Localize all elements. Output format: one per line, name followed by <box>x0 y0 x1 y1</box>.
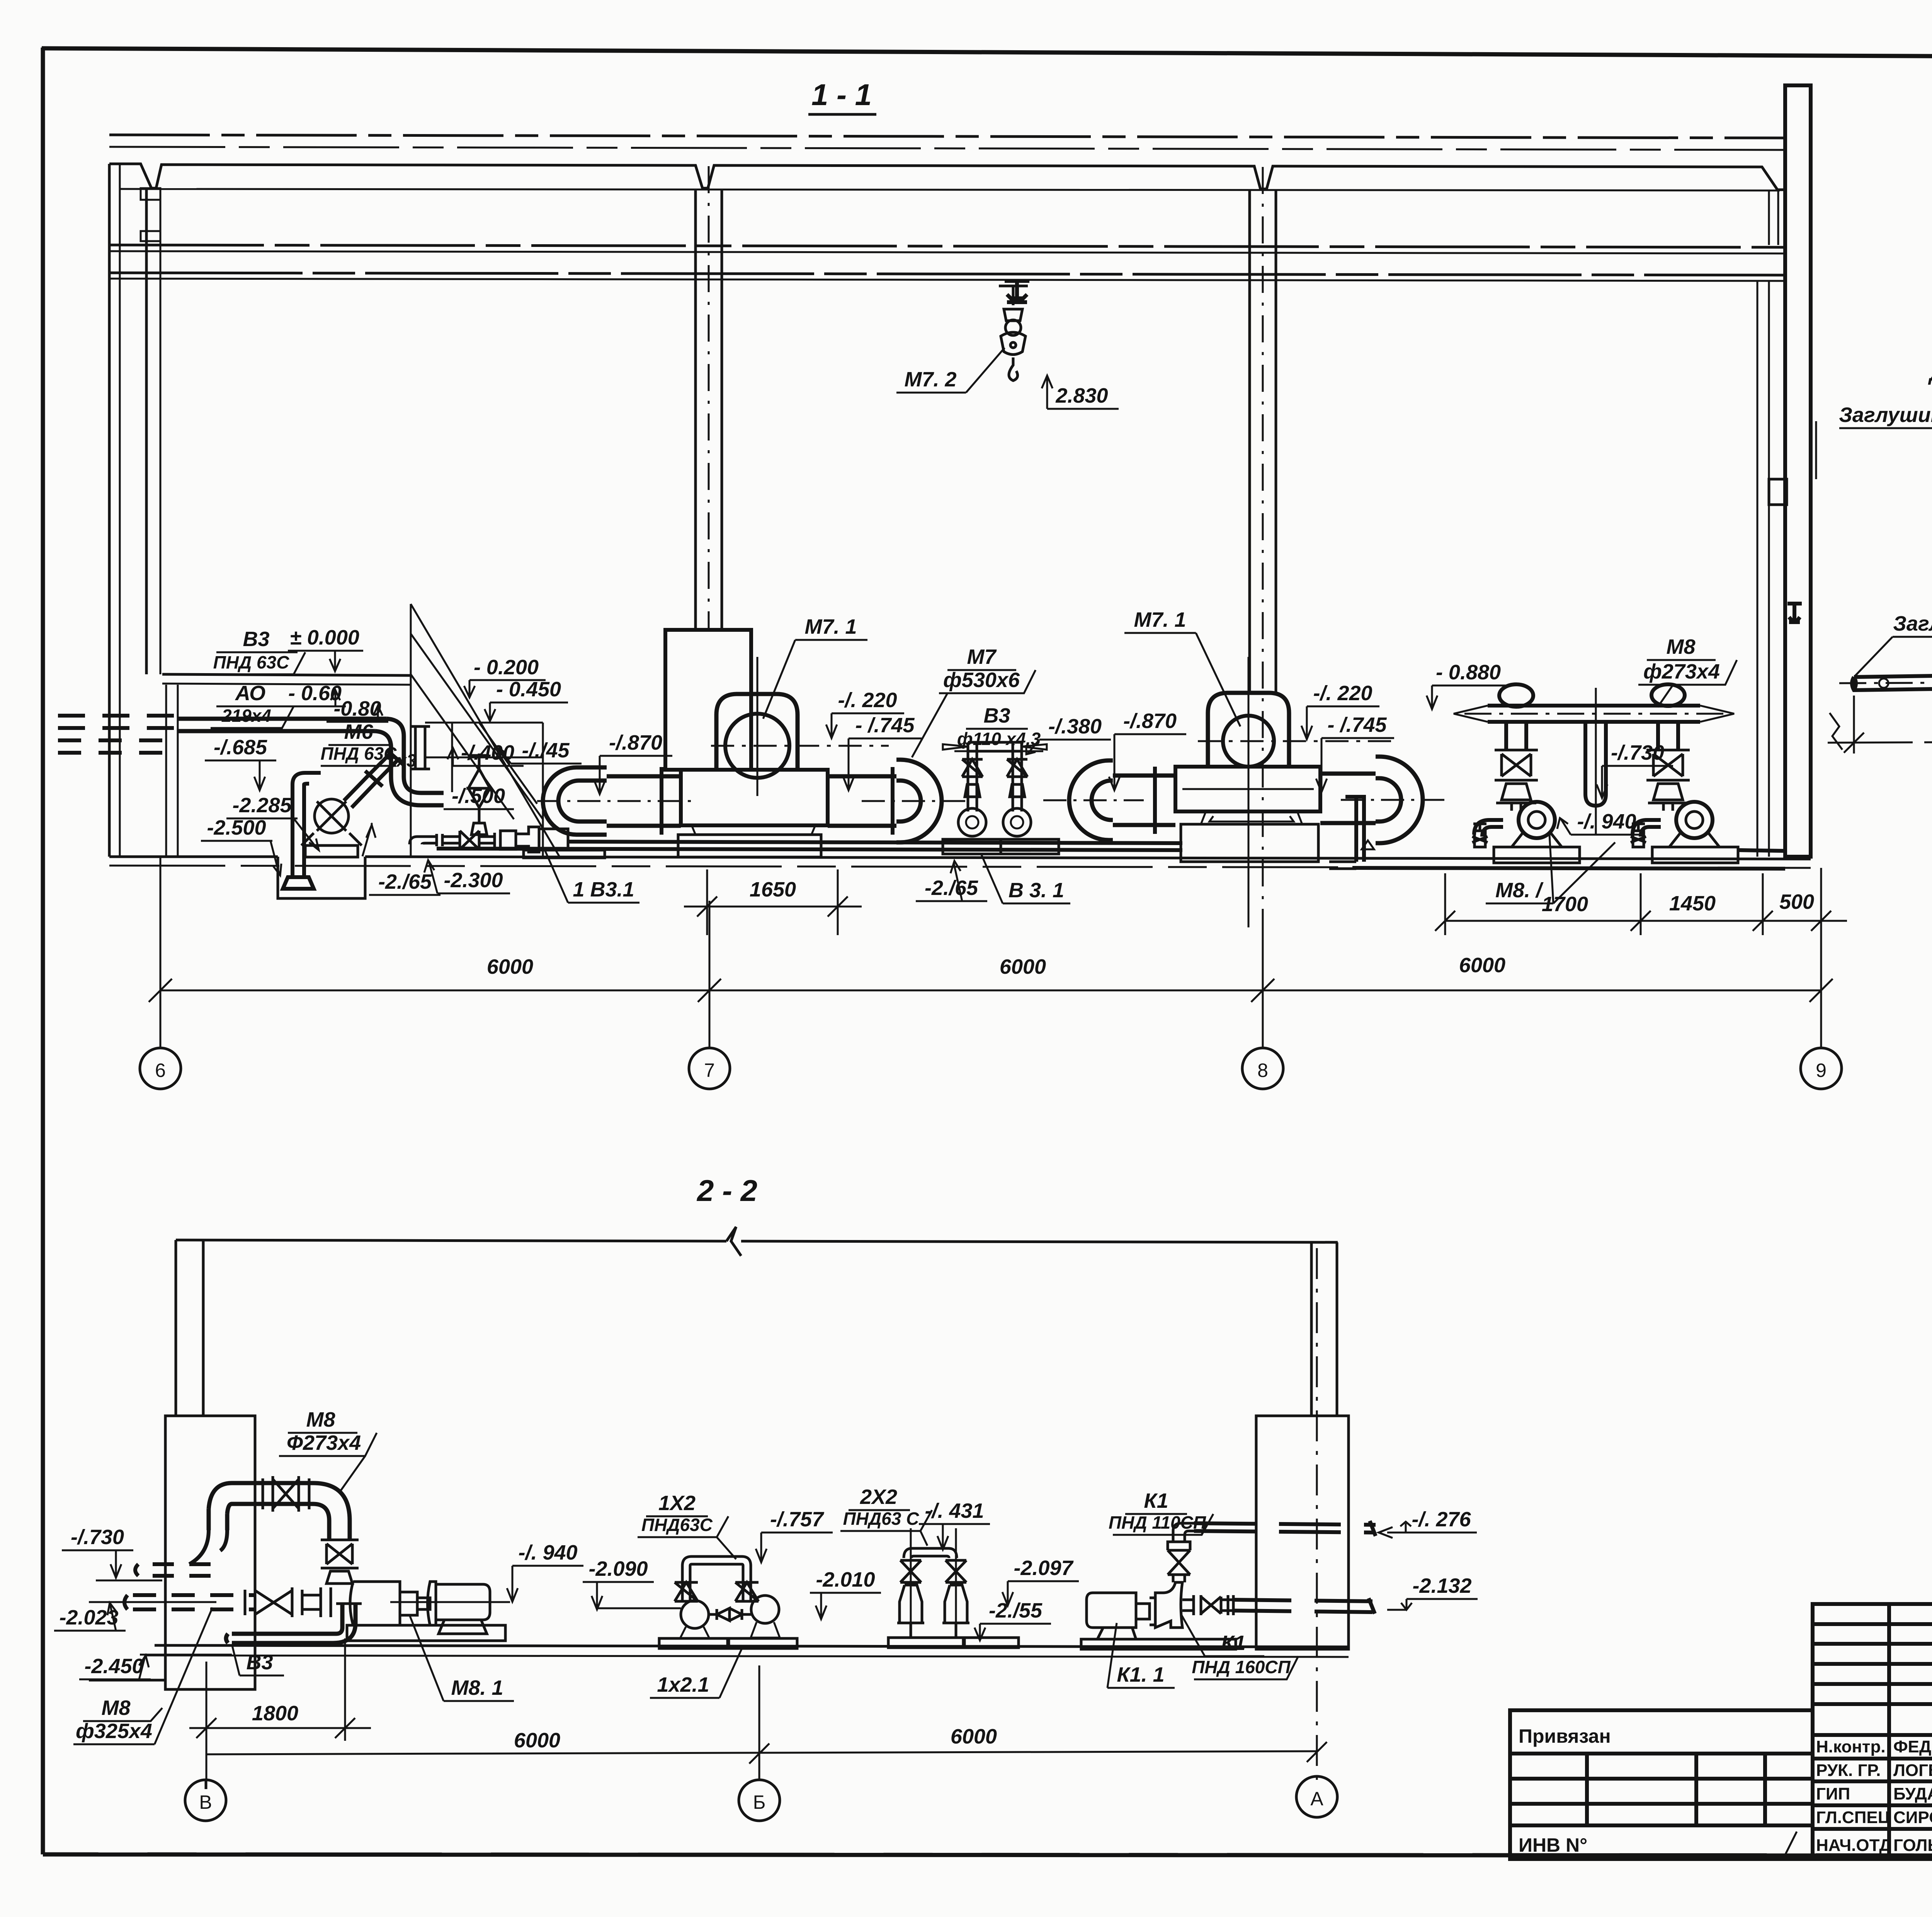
svg-text:-2.300: -2.300 <box>444 869 503 892</box>
svg-text:-/.500: -/.500 <box>452 784 505 808</box>
trapezoid support + base <box>692 825 815 835</box>
pump M6 with cross legs <box>301 799 362 857</box>
svg-text:ПНД 160СП: ПНД 160СП <box>1192 1657 1291 1677</box>
svg-text:В: В <box>199 1791 212 1813</box>
small elbow pipe at body right <box>1345 797 1364 862</box>
svg-text:-2./55: -2./55 <box>989 1599 1043 1622</box>
arrows to pipe ends <box>943 744 1047 750</box>
svg-text:К1. 1: К1. 1 <box>1117 1663 1164 1686</box>
right loop (open left) <box>1376 757 1423 843</box>
floor pipes right zone <box>1738 850 1785 851</box>
svg-text:-2.097: -2.097 <box>1014 1556 1074 1580</box>
left wall <box>109 164 160 857</box>
svg-text:- /.745: - /.745 <box>1327 713 1387 737</box>
svg-text:-/./45: -/./45 <box>522 739 570 762</box>
main floor line <box>109 856 278 858</box>
body box <box>1175 767 1320 811</box>
horizontal pipe with cone arrows <box>1488 704 1700 708</box>
duct to right loop <box>828 774 896 779</box>
floor level pipe from pump to right <box>410 827 568 852</box>
svg-text:6: 6 <box>155 1060 166 1081</box>
duct to right loop <box>1320 772 1376 776</box>
svg-text:РУК. ГР.: РУК. ГР. <box>1816 1761 1881 1780</box>
break mark N <box>1830 713 1842 750</box>
svg-text:-/.730: -/.730 <box>1611 741 1664 764</box>
svg-text:- /.745: - /.745 <box>855 714 915 737</box>
svg-text:-/.870: -/.870 <box>1123 709 1177 733</box>
svg-text:А: А <box>1310 1788 1323 1810</box>
svg-text:± 0.000: ± 0.000 <box>290 626 359 649</box>
left piece <box>1852 675 1932 690</box>
pump M8.1 (sect 2-2) <box>336 1582 505 1641</box>
grid circle 7 <box>689 1048 730 1089</box>
svg-text:- 0.200: - 0.200 <box>474 656 539 679</box>
grid circle B <box>739 1780 780 1821</box>
svg-text:2Х2: 2Х2 <box>860 1485 897 1509</box>
right pump volute <box>1676 802 1713 838</box>
svg-text:М8. /: М8. / <box>1495 879 1544 902</box>
svg-text:М7: М7 <box>967 645 997 668</box>
thick pipes along floor to right <box>437 849 1182 850</box>
lower beam line pair <box>109 273 1787 275</box>
right elbow and riser <box>1658 722 1678 750</box>
ramp / inclined chute <box>411 604 560 857</box>
svg-text:-/. 220: -/. 220 <box>838 689 897 712</box>
svg-text:-/. 940: -/. 940 <box>1577 810 1636 833</box>
svg-text:БУДАЕВА: БУДАЕВА <box>1893 1784 1932 1803</box>
svg-text:-2.500: -2.500 <box>207 816 266 839</box>
svg-text:1Х2: 1Х2 <box>658 1492 696 1515</box>
svg-text:-2.010: -2.010 <box>816 1568 875 1591</box>
svg-text:ПНД 110СП: ПНД 110СП <box>1109 1512 1206 1533</box>
valve on right riser <box>1646 750 1690 811</box>
svg-text:1х2.1: 1х2.1 <box>657 1673 709 1696</box>
svg-text:6000: 6000 <box>487 955 533 978</box>
svg-text:-/. 276: -/. 276 <box>1412 1508 1471 1531</box>
dashed pipes through wall <box>124 1530 255 1609</box>
svg-text:-2./65: -2./65 <box>378 870 432 893</box>
zigzag pipe M6 to valve <box>344 750 404 808</box>
valve on top run <box>263 1476 309 1512</box>
svg-text:ФЕДОРОВА: ФЕДОРОВА <box>1893 1737 1932 1756</box>
svg-text:Заглушить: Заглушить <box>1839 403 1932 427</box>
crane rail I-beam on bracket <box>1787 604 1802 622</box>
svg-text:М7. 1: М7. 1 <box>804 615 857 638</box>
svg-text:ПНД63 С: ПНД63 С <box>843 1509 919 1529</box>
left loop (open right) <box>1069 760 1113 840</box>
svg-text:х3: х3 <box>395 750 417 771</box>
incoming dashed pipes through wall <box>58 716 178 753</box>
svg-text:Привязан: Привязан <box>1519 1725 1611 1747</box>
svg-text:Ф273х4: Ф273х4 <box>287 1431 361 1454</box>
svg-text:М6: М6 <box>344 720 373 743</box>
svg-text:-2.090: -2.090 <box>588 1557 648 1580</box>
svg-text:-2.023: -2.023 <box>59 1606 118 1629</box>
svg-text:-/.870: -/.870 <box>609 731 662 754</box>
svg-text:К1: К1 <box>1144 1489 1168 1512</box>
svg-text:ПНД63С: ПНД63С <box>641 1515 713 1535</box>
duct <box>1113 774 1175 778</box>
dim 1650 1650 <box>1828 692 1932 754</box>
svg-text:-/.730: -/.730 <box>71 1526 124 1549</box>
svg-text:-2.132: -2.132 <box>1412 1574 1471 1597</box>
svg-text:АО: АО <box>235 682 265 705</box>
svg-text:В 3. 1: В 3. 1 <box>1009 879 1064 902</box>
svg-text:ПНД 63С: ПНД 63С <box>321 743 397 764</box>
valve X3 vertical pipe <box>410 726 430 769</box>
svg-text:-/.380: -/.380 <box>1048 715 1102 738</box>
right tall crane column <box>1757 85 1842 857</box>
base under 1B3.1 pump <box>524 850 605 858</box>
M7.1 chimney box at grid 7 <box>665 630 751 770</box>
svg-text:НАЧ.ОТД: НАЧ.ОТД <box>1816 1836 1891 1855</box>
svg-text:В3: В3 <box>983 704 1010 727</box>
svg-text:2.830: 2.830 <box>1055 384 1108 407</box>
svg-text:6000: 6000 <box>951 1725 997 1748</box>
bases <box>1494 847 1580 863</box>
funnel pipe in pit <box>283 773 321 889</box>
svg-text:ф325х4: ф325х4 <box>76 1720 152 1743</box>
M7.1 chimney box left of grid 8 <box>1208 693 1289 767</box>
pump circle <box>725 714 789 778</box>
svg-text:Б: Б <box>753 1791 766 1813</box>
center line <box>1839 680 1932 683</box>
column grid8 upper <box>1250 167 1276 989</box>
svg-text:1700: 1700 <box>1542 893 1588 916</box>
svg-text:ПНД 63С: ПНД 63С <box>213 652 289 672</box>
M8 piping at column B <box>209 1483 350 1540</box>
svg-text:ГОЛЬДМАН: ГОЛЬДМАН <box>1893 1836 1932 1855</box>
svg-text:1 - 1: 1 - 1 <box>811 78 872 112</box>
middle dip tube <box>1585 722 1606 806</box>
roof slab bottom line <box>120 189 1780 191</box>
low B3 pipe <box>226 1604 355 1643</box>
svg-text:1450: 1450 <box>1669 892 1716 915</box>
svg-text:8: 8 <box>1257 1060 1268 1081</box>
roof second line (dash) <box>109 147 1787 150</box>
svg-text:Заглушить: Заглушить <box>1893 612 1932 635</box>
column B lower box <box>165 1416 255 1689</box>
left loop of unit 1 <box>543 767 607 835</box>
grid circle 8 <box>1242 1048 1283 1089</box>
svg-text:2 - 2: 2 - 2 <box>696 1174 757 1208</box>
grid circle 9 <box>1801 1048 1842 1089</box>
body box <box>681 770 828 825</box>
bracket on column <box>1769 479 1787 505</box>
svg-text:6000: 6000 <box>1000 955 1046 978</box>
grid circle 6 <box>140 1048 181 1089</box>
B3 valve cluster at -1.500 <box>468 754 490 835</box>
svg-text:219х4: 219х4 <box>221 706 271 726</box>
svg-text:К1: К1 <box>1221 1631 1245 1655</box>
svg-text:-0.80: -0.80 <box>333 697 381 720</box>
svg-text:1650: 1650 <box>750 878 796 901</box>
svg-text:1800: 1800 <box>252 1702 298 1725</box>
central signature table <box>1813 1604 1932 1859</box>
svg-text:6000: 6000 <box>1459 954 1505 977</box>
column A upper <box>1310 1242 1313 1416</box>
crane hook M7.2 <box>999 286 1028 381</box>
svg-text:Н.контр.: Н.контр. <box>1816 1737 1886 1756</box>
svg-text:В3: В3 <box>246 1651 273 1674</box>
svg-text:М8. 1: М8. 1 <box>451 1676 503 1699</box>
upper floor slab left (el 0.000) <box>162 674 411 675</box>
svg-text:М8: М8 <box>306 1408 335 1431</box>
svg-text:-/.757: -/.757 <box>770 1508 825 1531</box>
grid circle V <box>185 1780 226 1821</box>
svg-text:М8: М8 <box>101 1696 130 1720</box>
2X2 pumps <box>888 1528 1019 1648</box>
svg-text:-/.685: -/.685 <box>214 736 267 759</box>
level arrow at -2.165 mid <box>362 823 376 856</box>
column B upper <box>175 1240 177 1416</box>
left pump volute <box>1519 802 1555 838</box>
svg-text:-/. 940: -/. 940 <box>518 1541 577 1564</box>
trapezoid + base <box>1201 812 1302 824</box>
valve on left riser <box>1495 750 1538 811</box>
floor lines <box>155 1645 1349 1647</box>
detail b: pipe f40 <box>1828 590 1932 754</box>
ceiling line with break <box>176 1227 1338 1256</box>
grid dimension row 6000s <box>149 857 1833 1048</box>
grid circle A <box>1296 1776 1337 1817</box>
pipe AO 219x4 along wall <box>178 719 444 805</box>
svg-text:В3: В3 <box>243 628 269 651</box>
K1 upper pipe dashed <box>1194 1523 1376 1533</box>
svg-text:М7. 2: М7. 2 <box>904 368 956 391</box>
column grid7 upper <box>696 166 722 630</box>
roof top chord line (dash) <box>109 135 1787 138</box>
rounded pump housing box <box>716 694 798 770</box>
svg-text:ГИП: ГИП <box>1816 1784 1850 1803</box>
duct from left loop to body <box>607 774 681 779</box>
svg-text:-2.285: -2.285 <box>232 794 292 817</box>
riser elbow down from top run <box>232 1483 313 1504</box>
beam bottom double line <box>109 245 1787 247</box>
svg-text:500: 500 <box>1779 890 1814 913</box>
svg-text:ДЕТАЛИ ВОЗДУШНОЙ РАСПРЕДЕЛИТЕЛ: ДЕТАЛИ ВОЗДУШНОЙ РАСПРЕДЕЛИТЕЛЬНОЙ СИСТЕ… <box>1928 361 1932 385</box>
svg-text:9: 9 <box>1816 1060 1827 1081</box>
crane monorail I beam under roof <box>1005 281 1029 302</box>
svg-text:СИРОТА: СИРОТА <box>1893 1808 1932 1827</box>
elbow pipes from pump suction to left <box>1474 820 1503 837</box>
svg-text:-/. 431: -/. 431 <box>925 1499 984 1522</box>
svg-text:- 0.450: - 0.450 <box>496 678 561 701</box>
svg-text:6000: 6000 <box>514 1729 560 1752</box>
1X2 pumps <box>659 1556 797 1648</box>
K1.1 pump <box>1081 1521 1376 1649</box>
svg-text:ф273х4: ф273х4 <box>1643 660 1720 683</box>
svg-text:ИНВ N°: ИНВ N° <box>1519 1834 1587 1856</box>
left elbow and riser <box>1506 722 1526 750</box>
svg-text:- 0.880: - 0.880 <box>1436 661 1501 684</box>
svg-text:М8: М8 <box>1666 635 1695 658</box>
svg-text:ф530х6: ф530х6 <box>943 668 1020 692</box>
valve on vertical drop <box>321 1540 359 1584</box>
small foot valves left of bases <box>1472 824 1646 847</box>
svg-text:7: 7 <box>704 1060 715 1081</box>
svg-text:ГЛ.СПЕЦ: ГЛ.СПЕЦ <box>1816 1808 1890 1827</box>
svg-text:-2.450: -2.450 <box>84 1655 143 1678</box>
svg-text:-/. 220: -/. 220 <box>1313 682 1372 705</box>
column A lower box <box>1256 1416 1349 1649</box>
roof slab top line with panel joints <box>109 164 1787 190</box>
svg-text:1 В3.1: 1 В3.1 <box>573 878 634 901</box>
svg-text:ф110 х4,3: ф110 х4,3 <box>957 729 1041 749</box>
svg-text:ЛОГВИНСКАЯ: ЛОГВИНСКАЯ <box>1893 1761 1932 1780</box>
detail a: pipe f25 <box>1839 395 1932 612</box>
big valve on lower pipe <box>245 1587 331 1617</box>
K1 lower pipe dashed <box>1233 1600 1374 1612</box>
left box <box>1510 1710 1813 1859</box>
svg-text:М7. 1: М7. 1 <box>1134 608 1186 631</box>
riser and valve up <box>1168 1523 1194 1582</box>
right loop (open left) <box>896 760 942 842</box>
svg-text:-2./65: -2./65 <box>925 876 978 900</box>
